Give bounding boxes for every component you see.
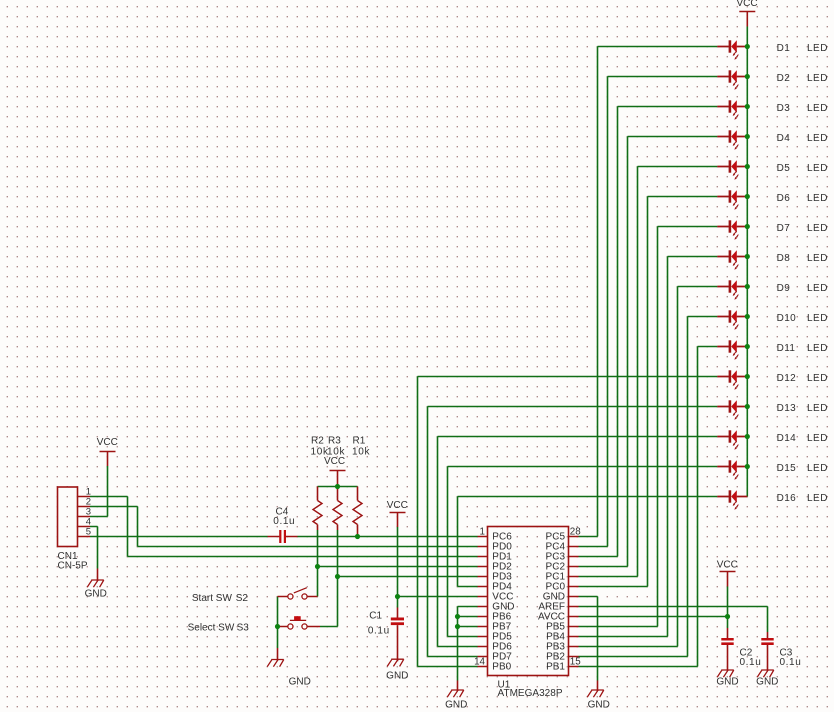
svg-text:GND: GND [588,700,610,711]
svg-text:1: 1 [480,527,485,538]
svg-text:D15: D15 [777,463,797,474]
svg-text:D9: D9 [777,283,791,294]
svg-text:GND: GND [716,677,738,688]
svg-text:14: 14 [474,656,485,667]
svg-text:LED: LED [807,343,828,354]
svg-text:D2: D2 [777,73,791,84]
svg-text:0.1u: 0.1u [368,625,390,636]
svg-text:10k: 10k [327,447,346,458]
svg-text:GND: GND [85,589,107,600]
svg-text:CN-5P: CN-5P [58,561,88,572]
svg-text:D3: D3 [777,103,791,114]
svg-text:S3: S3 [237,623,250,634]
svg-text:VCC: VCC [736,0,757,9]
svg-text:D4: D4 [777,133,791,144]
svg-text:D1: D1 [777,43,791,54]
svg-text:D11: D11 [777,343,796,354]
svg-text:LED: LED [807,373,828,384]
svg-text:LED: LED [807,493,828,504]
svg-text:D14: D14 [777,433,797,444]
svg-text:D7: D7 [777,223,791,234]
svg-text:GND: GND [386,671,408,682]
svg-text:0.1u: 0.1u [780,657,802,668]
svg-text:GND: GND [289,677,311,688]
svg-text:LED: LED [807,43,828,54]
svg-text:PB0: PB0 [492,662,511,673]
svg-text:C1: C1 [369,611,382,622]
svg-text:R1: R1 [353,436,366,447]
svg-text:5: 5 [86,527,91,538]
svg-text:LED: LED [807,403,828,414]
svg-text:10k: 10k [352,447,371,458]
svg-text:D10: D10 [777,313,797,324]
svg-text:LED: LED [807,163,828,174]
svg-text:R2: R2 [311,436,324,447]
svg-text:LED: LED [807,463,828,474]
svg-text:Start SW: Start SW [192,593,233,604]
svg-text:Select SW: Select SW [188,623,235,634]
svg-text:LED: LED [807,253,828,264]
svg-text:LED: LED [807,313,828,324]
svg-text:D16: D16 [777,493,797,504]
svg-text:15: 15 [570,656,581,667]
svg-text:VCC: VCC [97,437,118,448]
svg-text:D8: D8 [777,253,791,264]
svg-text:VCC: VCC [717,560,738,571]
svg-text:0.1u: 0.1u [740,657,762,668]
svg-text:ATMEGA328P: ATMEGA328P [498,688,563,699]
svg-text:S2: S2 [236,593,249,604]
svg-text:VCC: VCC [324,456,345,467]
svg-text:R3: R3 [328,436,341,447]
svg-text:GND: GND [445,700,467,711]
svg-text:PB1: PB1 [546,662,565,673]
svg-text:LED: LED [807,193,828,204]
svg-text:D12: D12 [777,373,797,384]
svg-text:LED: LED [807,283,828,294]
svg-text:LED: LED [807,133,828,144]
svg-text:LED: LED [807,223,828,234]
svg-text:D13: D13 [777,403,797,414]
svg-text:D6: D6 [777,193,791,204]
svg-text:VCC: VCC [387,500,408,511]
svg-text:LED: LED [807,103,828,114]
svg-text:LED: LED [807,73,828,84]
svg-text:0.1u: 0.1u [273,516,295,527]
svg-text:LED: LED [807,433,828,444]
svg-text:GND: GND [756,677,778,688]
svg-text:28: 28 [570,527,581,538]
svg-text:D5: D5 [777,163,791,174]
